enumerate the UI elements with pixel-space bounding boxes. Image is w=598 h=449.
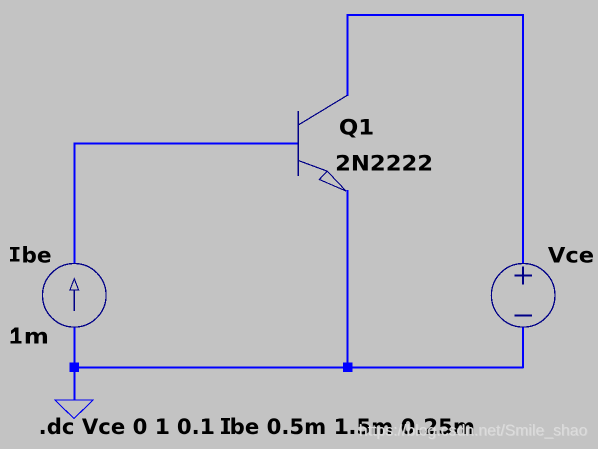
wire: emitter vertical down to bottom rail (346, 190, 348, 367)
current source I1 (Ibe): circle (43, 264, 107, 328)
transistor Q1: emitter arrow (open triangle) (319, 171, 346, 191)
node junction at Ibe/ground (filled square) (70, 363, 80, 373)
current source I1: arrow head (open triangle) (70, 279, 79, 290)
wire: collector vertical (346, 14, 348, 96)
svg-text:Q1: Q1 (339, 115, 374, 139)
wire: Ibe bottom down to ground (73, 327, 75, 400)
transistor Q1: collector diagonal (298, 95, 347, 125)
wire: left vertical (base wire down to Ibe top) (73, 142, 75, 263)
wire: base horizontal (Ibe to Q1 base) (73, 142, 298, 144)
foot of digit 1 in Q1 (362, 132, 371, 134)
voltage source V1: minus sign (514, 315, 532, 317)
wire: top horizontal (collector to Vce) (346, 14, 524, 16)
voltage source V1 (Vce): circle (491, 264, 555, 328)
verdana-style feet/serifs on directive digits (158, 418, 348, 434)
voltage source V1: plus sign (514, 266, 532, 284)
svg-text:be: be (21, 243, 51, 267)
wire: bottom rail (74, 366, 524, 368)
svg-text:2N2222: 2N2222 (335, 152, 433, 176)
transistor Q1: emitter diagonal (298, 161, 327, 172)
wire: right vertical (top rail down to Vce plus terminal) (522, 14, 524, 264)
svg-text:https://blog.csdn.net/Smile_sh: https://blog.csdn.net/Smile_shao (359, 422, 588, 439)
label: Ibe (current source name), serifed I drawn as rects (10, 247, 20, 262)
current source I1: arrow shaft (73, 290, 75, 312)
ground symbol (55, 400, 93, 419)
transistor Q1: base bar (297, 111, 299, 176)
label: 1m (current source value), digit 1 drawn with foot (11, 328, 22, 344)
svg-text:m: m (24, 325, 49, 349)
node junction at emitter/bottom rail (filled square) (343, 363, 353, 373)
wire: Vce minus terminal down to bottom rail (522, 327, 524, 368)
svg-text:Vce: Vce (548, 243, 594, 267)
